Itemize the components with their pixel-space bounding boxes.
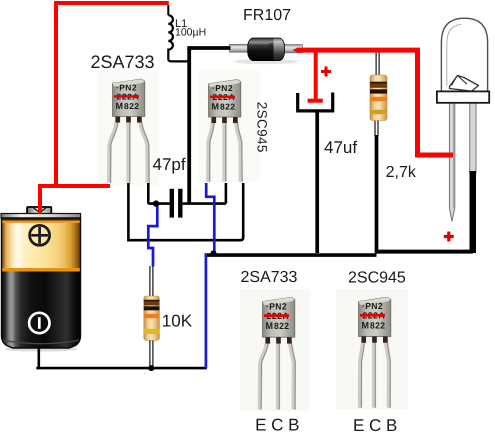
svg-text:2SA733: 2SA733 (241, 269, 298, 286)
svg-text:47uf: 47uf (324, 138, 357, 157)
svg-text:2SC945: 2SC945 (255, 102, 270, 153)
svg-text:E C B: E C B (353, 416, 397, 435)
svg-text:902: 902 (267, 43, 274, 54)
svg-text:2SA733: 2SA733 (91, 52, 155, 72)
svg-text:2,7k: 2,7k (386, 164, 417, 181)
svg-text:FR107: FR107 (243, 7, 291, 24)
svg-text:E C B: E C B (255, 416, 299, 435)
svg-text:10K: 10K (162, 312, 193, 331)
svg-text:2SC945: 2SC945 (348, 270, 406, 287)
svg-text:47pf: 47pf (153, 155, 186, 174)
svg-text:100µH: 100µH (175, 27, 206, 39)
